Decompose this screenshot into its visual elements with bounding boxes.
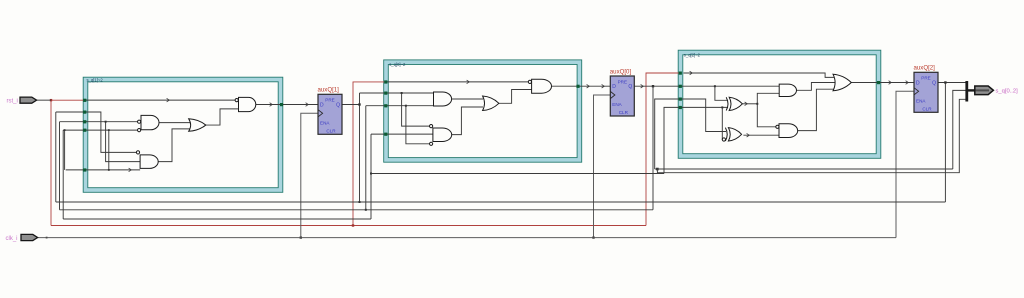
svg-text:D: D xyxy=(612,84,616,90)
junction row B branch box1 xyxy=(105,121,107,123)
junction clk FF2 riser xyxy=(592,236,594,238)
input port clk_i xyxy=(21,234,38,240)
wire rst riser to box3 xyxy=(646,73,680,226)
wire row A box1 xyxy=(56,112,136,152)
node box1 left row C xyxy=(83,129,86,132)
wire row B box1 xyxy=(60,121,138,123)
svg-text:Q: Q xyxy=(932,80,936,86)
svg-text:auxQ[2]: auxQ[2] xyxy=(914,64,936,71)
svg-text:Q: Q xyxy=(628,84,632,90)
node box2 left net B xyxy=(384,104,387,107)
wire G1 output to FF1 D xyxy=(256,104,318,106)
junction box3 XNOR2 branch xyxy=(721,106,723,108)
hierarchy box s_q[2] (box 3) xyxy=(678,50,881,158)
wire XOR1 output xyxy=(742,103,757,105)
wire FF1 Q to feedback riser xyxy=(342,104,360,106)
wire G3 output to G4 input 2 xyxy=(158,129,190,162)
junction box2 branch A xyxy=(401,92,403,94)
svg-text:clk_i: clk_i xyxy=(6,236,18,242)
wire feedback line y172.7 to output tap xyxy=(657,99,965,172)
XNOR gate X2 xyxy=(722,128,741,141)
wire rst port lead xyxy=(37,99,51,101)
wire G5 output to G6 input 1 xyxy=(452,98,483,100)
wire clk riser FF1 xyxy=(301,113,318,237)
svg-text:CLR: CLR xyxy=(619,110,629,115)
node box1 left rst xyxy=(83,99,86,102)
junction box2 branch B xyxy=(405,105,407,107)
svg-text:ENA: ENA xyxy=(916,99,926,104)
wire net B riser xyxy=(365,106,367,210)
wire clk riser FF2 xyxy=(594,95,611,238)
wire net A into box2 xyxy=(360,92,434,94)
junction FF2.Q feedback xyxy=(652,85,654,87)
arrow on FF3 D wire 2 xyxy=(906,81,909,85)
node box2 left net A xyxy=(384,92,387,95)
junction FF1.Q riser on line alpha xyxy=(359,201,361,203)
flip-flop auxQ[1] xyxy=(318,94,342,134)
arrow on row D box1 xyxy=(129,168,132,172)
wire XOR1 out down to AND2low bubble xyxy=(757,104,776,127)
arrow on FF2 Q wire xyxy=(641,84,644,88)
node box2 left rst xyxy=(384,80,387,83)
flip-flop auxQ[2] xyxy=(914,72,938,112)
OR gate G6 xyxy=(483,96,499,111)
junction row C inner branch xyxy=(108,129,110,131)
junction jog on line y169 xyxy=(657,168,659,170)
wire FF3 Q to bus bar xyxy=(938,82,966,84)
flip-flop auxQ[0] xyxy=(610,76,634,116)
wire clk riser FF3 xyxy=(896,91,914,237)
svg-text:auxQ[1]: auxQ[1] xyxy=(318,86,340,93)
OR gate G4 xyxy=(189,119,206,132)
wire bus line alpha left riser xyxy=(55,112,57,202)
wire row D box1 xyxy=(66,169,140,171)
wire G7 output to G6 input 2 xyxy=(452,107,483,135)
output bus wire to port xyxy=(967,89,975,91)
wire G2 output to G4 input 1 xyxy=(159,122,191,124)
wire XOR1 out up to AND2mid input 2 xyxy=(757,93,779,104)
wire bus line alpha (FF1.Q net) xyxy=(56,201,946,203)
output bus bar xyxy=(965,81,968,102)
output port s_q[0..2] xyxy=(975,86,994,95)
AND gate G2 (two bubbles) xyxy=(138,115,160,131)
node box1 left row A xyxy=(83,111,86,114)
hierarchy box s_q[1] (box 1) xyxy=(83,77,283,192)
wire box2 branch to G7 bubble 1 xyxy=(402,93,430,126)
svg-text:CLR: CLR xyxy=(326,129,336,134)
wire net C into box2 xyxy=(371,133,433,135)
wire AND2mid output to OR3 input 2 xyxy=(797,83,836,91)
wire row B branch to G3 input 2 xyxy=(106,122,141,162)
wire rst horizontal from junction to box1 xyxy=(51,99,85,101)
svg-text:ENA: ENA xyxy=(320,121,330,126)
wire G6 output to G8 input 2 xyxy=(499,90,532,104)
node box1 right output xyxy=(280,103,283,106)
arrow on FF2 D wire 2 xyxy=(602,84,605,88)
node box3 left rst xyxy=(679,72,682,75)
wire net R4 riser and into box3 xyxy=(664,107,728,173)
wire XNOR2 output to AND2low input 2 xyxy=(743,134,779,136)
wire AND2low output to OR3 input 3 xyxy=(798,89,835,130)
AND gate G5 xyxy=(434,92,452,106)
svg-text:Q: Q xyxy=(336,102,340,108)
wire row C to row D branch riser xyxy=(64,130,66,170)
svg-text:CLR: CLR xyxy=(922,107,932,112)
svg-text:s_q[1]~2: s_q[1]~2 xyxy=(87,77,104,82)
junction net C / line P xyxy=(370,173,372,175)
svg-text:D: D xyxy=(916,80,920,86)
XOR gate X1 xyxy=(726,97,742,110)
AND gate G7 (two bubbles) xyxy=(430,125,452,146)
wire rst riser to box2 xyxy=(353,82,385,226)
wire bus line beta left riser xyxy=(59,122,61,210)
wire row C box1 xyxy=(63,129,137,131)
wire feedback line y169 xyxy=(655,168,953,170)
wire net B into box2 xyxy=(366,105,434,107)
wire G4 output to G1 input 2 xyxy=(206,109,239,125)
wire rst inside box1 to gate G1 bubble xyxy=(85,99,236,101)
junction XOR1 output branch xyxy=(756,103,758,105)
wire FF3.Q descender to alpha xyxy=(944,83,946,203)
wire rst inside box3 to OR3 input1 xyxy=(684,73,835,77)
svg-text:D: D xyxy=(320,102,324,108)
junction row D inner xyxy=(108,169,110,171)
wire bus line beta (FF2.Q net) xyxy=(60,209,654,211)
arrow on rst wire box2 xyxy=(467,80,470,84)
junction clk near port xyxy=(46,237,48,239)
AND gate G3 (lower, one bubble) xyxy=(136,151,158,169)
arrow on rst wire box3 xyxy=(690,71,693,75)
OR gate O3 xyxy=(833,74,851,91)
svg-text:PRE: PRE xyxy=(325,98,334,103)
wire G8 output to FF2 D xyxy=(552,85,611,87)
node box1 left row D xyxy=(83,168,86,171)
node box2 right output xyxy=(576,85,579,88)
wire branch to XOR1 input 1 xyxy=(715,86,728,100)
wire row C to row D inner riser xyxy=(108,130,110,170)
arrow on FF3 D wire 1 xyxy=(889,81,892,85)
node box3 right output xyxy=(877,81,880,84)
AND gate G8 (top, rst bubble) xyxy=(528,79,551,93)
svg-text:s_q[0]~2: s_q[0]~2 xyxy=(389,62,406,67)
node box3 left R3 xyxy=(679,98,682,101)
arrow on FF1 D wire 1 xyxy=(270,103,273,107)
node box1 left row B xyxy=(83,120,86,123)
junction rst at port branch xyxy=(50,99,52,101)
wire bus line gamma left riser xyxy=(62,130,64,219)
junction FF3.Q feedback xyxy=(944,81,946,83)
wire FF2 Q to box3 (AND2mid input1) xyxy=(634,85,779,87)
AND gate G1 (top, rst) xyxy=(235,97,256,111)
svg-text:rst_i: rst_i xyxy=(7,98,18,104)
svg-text:ENA: ENA xyxy=(612,102,622,107)
svg-text:PRE: PRE xyxy=(618,79,627,84)
wire net R3 riser and into box3 xyxy=(655,99,726,169)
junction rst bottom at x353 xyxy=(352,224,354,226)
input port rst_i xyxy=(20,97,37,103)
arrow on rst wire box1 xyxy=(167,98,170,102)
AND gate A3m (middle) xyxy=(779,84,796,96)
junction net B riser on line beta xyxy=(365,209,367,211)
node box2 left net C xyxy=(384,133,387,136)
wire bus line gamma (FF3.Q net) xyxy=(63,218,371,220)
wire rst inside box2 to G8 bubble xyxy=(386,81,528,83)
node box3 left R4 xyxy=(679,106,682,109)
svg-text:auxQ[0]: auxQ[0] xyxy=(610,68,632,75)
junction clk FF1 riser xyxy=(300,236,302,238)
wire clk main horizontal xyxy=(37,237,896,239)
wire feedback line P y174.5 xyxy=(371,173,664,175)
junction FF1.Q feedback xyxy=(358,103,360,105)
wire FF2.Q feedback descender xyxy=(652,86,654,210)
arrow on FF1 D wire 2 xyxy=(306,103,309,107)
arrow on XOR1 output xyxy=(745,102,748,106)
wire feedback line y169 output tap xyxy=(953,90,966,169)
wire branch to XNOR2 bubble input xyxy=(721,107,723,139)
node box3 left FF2.Q xyxy=(679,85,682,88)
wire rst bottom horizontal xyxy=(51,225,646,227)
svg-text:s_q[0..2]: s_q[0..2] xyxy=(996,89,1019,95)
arrow on FF2 D wire 1 xyxy=(587,84,590,88)
AND gate A3l (lower, one bubble) xyxy=(776,124,798,138)
junction box3 XOR1 branch xyxy=(714,85,716,87)
wire box2 branch to G7 bubble 2 xyxy=(406,106,430,144)
wire OR3 output to FF3 D xyxy=(851,82,914,84)
svg-text:s_q[2]~2: s_q[2]~2 xyxy=(684,53,701,58)
junction row C/D branch xyxy=(64,129,66,131)
arrow on XNOR2 output xyxy=(747,133,750,137)
svg-text:PRE: PRE xyxy=(921,76,930,81)
hierarchy box s_q[0] (box 2) xyxy=(384,60,582,162)
wire rst vertical left drop xyxy=(50,100,52,225)
wire net C riser xyxy=(370,134,372,219)
wire net A riser (FF1.Q) xyxy=(359,93,361,202)
